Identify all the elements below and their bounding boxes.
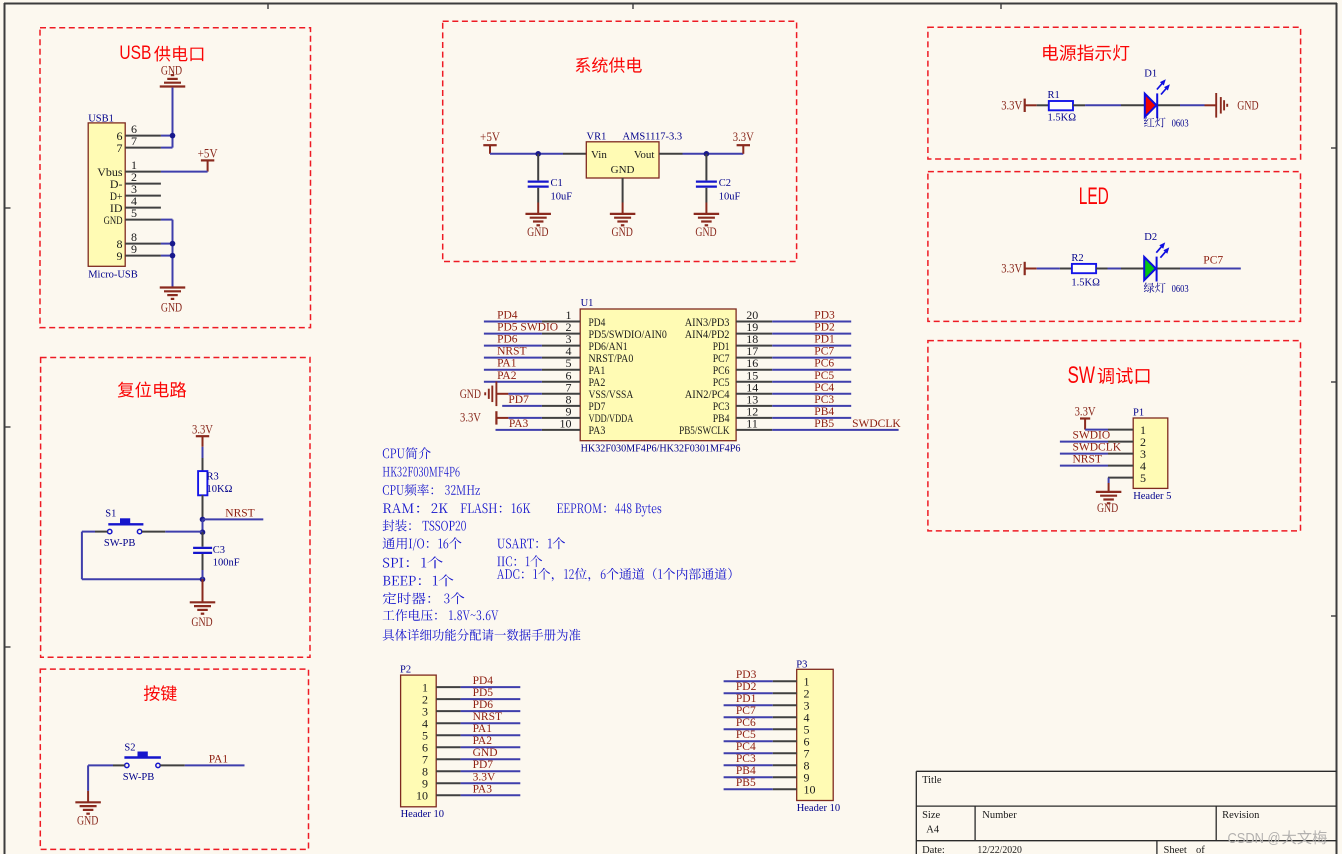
svg-text:SWDCLK: SWDCLK [852, 418, 901, 430]
svg-text:NRST: NRST [497, 346, 526, 358]
svg-text:PD2: PD2 [814, 322, 835, 334]
junction C1 [535, 151, 541, 157]
svg-text:7: 7 [117, 141, 123, 155]
switch S1 SW-PB [104, 508, 143, 549]
svg-text:Header 10: Header 10 [401, 809, 444, 820]
svg-text:Header 5: Header 5 [1133, 491, 1171, 502]
svg-text:S1: S1 [105, 508, 116, 519]
svg-text:PD1: PD1 [814, 334, 835, 346]
P3 pin numbers [804, 675, 816, 797]
wire S1 left loop [82, 532, 203, 580]
wire D1 to GND [1158, 104, 1216, 106]
svg-text:PC4: PC4 [814, 382, 834, 394]
svg-text:3.3V: 3.3V [473, 771, 496, 783]
header P1 Header 5 [1133, 407, 1171, 502]
svg-text:LED: LED [1079, 183, 1109, 210]
svg-text:GND: GND [1237, 98, 1258, 112]
ground GND top of USB [160, 64, 186, 87]
svg-text:PA2: PA2 [473, 735, 493, 747]
svg-text:PD5 SWDIO: PD5 SWDIO [497, 322, 558, 334]
svg-text:GND: GND [527, 225, 548, 239]
svg-text:VR1: VR1 [587, 131, 607, 142]
section title USB 供电口 [119, 42, 203, 64]
header P3 Header 10 [796, 659, 840, 814]
svg-text:Revision: Revision [1222, 810, 1260, 821]
ground GND under VR1 [610, 214, 636, 239]
P2 pin numbers [416, 680, 428, 802]
wire 3.3V to R3 [202, 447, 204, 458]
svg-text:PB5: PB5 [736, 777, 756, 789]
svg-text:PD4: PD4 [497, 310, 518, 322]
CPU description text [383, 447, 732, 641]
power port 3.3V debug [1075, 404, 1096, 429]
section title 系统供电 [576, 57, 642, 73]
power port 3.3V U1 VDD [460, 410, 508, 424]
svg-text:GND: GND [460, 387, 481, 401]
wire U1 pin2 [484, 333, 542, 335]
junction pin 8 [170, 241, 176, 247]
svg-text:SW-PB: SW-PB [123, 772, 155, 783]
value 红灯 0603 [1144, 117, 1189, 129]
svg-text:GND: GND [611, 164, 635, 176]
wire R2 to D2 [1108, 268, 1145, 270]
svg-text:Size: Size [922, 810, 940, 821]
U1 right pin names [679, 315, 730, 437]
wire P3 pin3 [724, 704, 773, 706]
wire U1 pin7 [508, 393, 542, 395]
wire P2 pin4 [461, 722, 521, 724]
svg-text:GND: GND [1097, 501, 1118, 515]
svg-text:+5V: +5V [198, 147, 218, 161]
svg-text:Vout: Vout [634, 149, 655, 161]
power port 3.3V indicator [1001, 99, 1036, 113]
wire P2 pin6 [461, 746, 521, 748]
wire P2 pin8 [461, 770, 521, 772]
wire GND to USB1 pins 6/7 [161, 88, 173, 148]
wire U1 pin17 [772, 357, 851, 359]
svg-text:HK32F030MF4P6/HK32F0301MF4P6: HK32F030MF4P6/HK32F0301MF4P6 [581, 443, 741, 454]
svg-text:3.3V: 3.3V [1001, 262, 1022, 276]
wire P2 pin3 [461, 710, 521, 712]
svg-text:SWDCLK: SWDCLK [1073, 442, 1122, 454]
wire P2 pin9 [461, 782, 521, 784]
svg-text:PD2: PD2 [736, 681, 757, 693]
svg-text:PD3: PD3 [814, 310, 835, 322]
svg-text:Header 10: Header 10 [797, 803, 840, 814]
junction pins 6/7 [170, 133, 176, 139]
svg-text:10uF: 10uF [719, 192, 741, 203]
wire U1 pin20 [772, 321, 851, 323]
junction C2 [704, 151, 710, 157]
wire Vbus to +5V [161, 171, 208, 173]
LED D1 red [1145, 79, 1170, 118]
svg-text:PD1: PD1 [736, 693, 757, 705]
svg-text:P1: P1 [1133, 407, 1144, 418]
svg-text:C1: C1 [551, 178, 563, 189]
wire U1 pin14 [772, 393, 851, 395]
section box USB power [40, 28, 311, 328]
capacitor C1 10uF [528, 154, 549, 214]
resistor R2 1.5K [1072, 264, 1108, 273]
P1 pin stubs [1108, 430, 1133, 478]
section box power indicator [928, 27, 1301, 159]
power port 3.3V system [733, 130, 754, 154]
P1 pin numbers [1140, 423, 1146, 485]
svg-text:3.3V: 3.3V [1075, 404, 1096, 418]
wire U1 pin3 [484, 345, 542, 347]
svg-text:D2: D2 [1144, 232, 1157, 243]
svg-text:R3: R3 [207, 471, 219, 482]
svg-text:5: 5 [131, 206, 137, 220]
svg-text:PC3: PC3 [736, 753, 756, 765]
U1 right pin stubs [736, 322, 772, 430]
power port +5V system [480, 130, 500, 154]
svg-text:PC5: PC5 [814, 370, 834, 382]
junction NRST [200, 517, 206, 523]
section box SW debug [928, 341, 1301, 531]
svg-text:0603: 0603 [1172, 283, 1189, 295]
wire P2 pin2 [461, 698, 521, 700]
wire D2 PC7 [1157, 268, 1240, 270]
svg-text:PA3: PA3 [473, 783, 493, 795]
svg-text:3.3V: 3.3V [1001, 99, 1022, 113]
watermark CSDN [1228, 830, 1327, 847]
svg-text:PB4: PB4 [814, 406, 834, 418]
wire NRST [203, 518, 264, 520]
power port 3.3V reset [192, 422, 213, 446]
svg-text:5: 5 [1140, 471, 1146, 485]
wire U1 pin12 [772, 417, 851, 419]
LED D2 green [1144, 242, 1169, 281]
section title 按键 [144, 685, 177, 701]
ground GND U1 VSS [460, 382, 509, 407]
wire U1 pin9 [508, 417, 542, 419]
svg-text:10KΩ: 10KΩ [207, 484, 233, 495]
wire pin5 GND down [161, 220, 173, 287]
wire 3.3V to P1 pin1 [1085, 429, 1108, 431]
svg-text:0603: 0603 [1172, 118, 1189, 130]
svg-text:R1: R1 [1048, 90, 1060, 101]
svg-text:100nF: 100nF [213, 558, 240, 569]
ground GND bottom of USB [160, 288, 186, 315]
USB1 pin numbers [131, 122, 137, 256]
svg-text:PC5: PC5 [736, 729, 756, 741]
svg-text:1.5KΩ: 1.5KΩ [1048, 112, 1077, 123]
svg-text:Vin: Vin [591, 149, 607, 161]
section box system power [443, 21, 797, 261]
svg-text:9: 9 [117, 249, 123, 263]
wire 3.3V to R2 [1037, 268, 1072, 270]
wire P3 pin5 [724, 728, 773, 730]
svg-text:A4: A4 [926, 824, 940, 835]
svg-text:+5V: +5V [480, 130, 500, 144]
svg-text:Number: Number [982, 810, 1017, 821]
svg-text:AMS1117-3.3: AMS1117-3.3 [623, 131, 683, 142]
ground GND debug [1096, 492, 1122, 515]
power port 3.3V LED [1001, 262, 1036, 276]
svg-text:C2: C2 [719, 178, 731, 189]
section title SW 调试口 [1068, 362, 1150, 389]
svg-text:Sheet: Sheet [1164, 845, 1187, 854]
svg-text:PD5: PD5 [473, 687, 494, 699]
section box key [40, 669, 308, 849]
svg-text:1.5KΩ: 1.5KΩ [1071, 278, 1100, 289]
svg-text:PA2: PA2 [497, 370, 517, 382]
svg-text:PA3: PA3 [589, 423, 606, 437]
svg-text:PC4: PC4 [736, 741, 756, 753]
USB1 pin stubs [125, 136, 161, 256]
wire NRST debug [1060, 465, 1108, 467]
U1 left pin names [589, 315, 667, 437]
section title 电源指示灯 [1043, 45, 1129, 61]
wire P2 pin5 [461, 734, 521, 736]
wire R3 to C3 [202, 519, 204, 532]
svg-text:10: 10 [804, 783, 816, 797]
svg-text:NRST: NRST [225, 507, 254, 519]
wire VR1 out to 3.3V [659, 153, 743, 155]
svg-text:GND: GND [473, 747, 498, 759]
svg-text:10: 10 [560, 416, 572, 430]
svg-text:U1: U1 [581, 298, 594, 309]
wire P3 pin2 [724, 692, 773, 694]
svg-text:of: of [1196, 845, 1205, 854]
wire +5V to VR1 [490, 153, 586, 155]
svg-text:PB5: PB5 [814, 418, 834, 430]
svg-text:3.3V: 3.3V [192, 422, 213, 436]
svg-text:PD3: PD3 [736, 669, 757, 681]
junction bottom [200, 577, 206, 583]
svg-text:CSDN @: CSDN @ [1228, 830, 1281, 847]
svg-text:12/22/2020: 12/22/2020 [977, 845, 1022, 854]
svg-text:PB4: PB4 [736, 765, 756, 777]
section box reset circuit [41, 358, 310, 658]
wire P2 pin7 [461, 758, 521, 760]
capacitor C3 100nF [193, 532, 212, 570]
U1 left pin numbers 1-10 [560, 308, 572, 430]
wire P2 pin1 [461, 686, 521, 688]
capacitor C2 10uF [696, 154, 717, 214]
wire U1 pin6 [484, 381, 542, 383]
svg-text:PC6: PC6 [736, 717, 756, 729]
junction pin 9 [170, 253, 176, 259]
wire U1 pin1 [484, 321, 542, 323]
wire P3 pin8 [724, 764, 773, 766]
svg-text:NRST: NRST [1073, 454, 1102, 466]
svg-text:Title: Title [922, 775, 942, 786]
wire U1 pin11 [772, 429, 898, 431]
wire U1 pin4 [484, 357, 542, 359]
switch S2 SW-PB [123, 742, 161, 783]
svg-text:SWDIO: SWDIO [1073, 430, 1111, 442]
section box LED [928, 172, 1301, 322]
svg-text:3.3V: 3.3V [733, 130, 754, 144]
svg-text:PD7: PD7 [508, 394, 529, 406]
connector USB1 Micro-USB [88, 113, 138, 280]
svg-text:Micro-USB: Micro-USB [88, 269, 138, 280]
MCU U1 HK32F030MF4P6 [580, 298, 740, 455]
wire to ground [202, 570, 204, 602]
wire U1 pin15 [772, 381, 851, 383]
svg-text:SW-PB: SW-PB [104, 538, 136, 549]
wire SWDIO [1060, 441, 1108, 443]
USB1 pin names [97, 129, 123, 263]
wire P3 pin4 [724, 716, 773, 718]
svg-text:GND: GND [161, 301, 182, 315]
svg-text:SW: SW [1068, 362, 1096, 389]
ground GND key [75, 802, 101, 827]
wire U1 pin10 PA3 [496, 429, 542, 431]
svg-text:10uF: 10uF [551, 192, 573, 203]
wire P2 pin10 [461, 794, 521, 796]
resistor R3 10K [198, 458, 207, 519]
svg-text:PC6: PC6 [814, 358, 834, 370]
svg-text:GND: GND [695, 225, 716, 239]
svg-text:GND: GND [612, 225, 633, 239]
power port +5V [198, 147, 218, 172]
section title 复位电路 [118, 382, 187, 398]
svg-text:PB5/SWCLK: PB5/SWCLK [679, 423, 730, 437]
ground GND reset [190, 602, 216, 629]
svg-text:7: 7 [131, 134, 137, 148]
ground GND under C1 [525, 214, 551, 239]
svg-text:PA1: PA1 [209, 753, 229, 765]
wire U1 pin13 [772, 405, 851, 407]
ground GND under C2 [694, 214, 720, 239]
svg-text:C3: C3 [213, 545, 225, 556]
wire U1 pin5 [484, 369, 542, 371]
wire P1 pin5 to GND [1108, 478, 1110, 492]
wire P3 pin1 [724, 680, 773, 682]
svg-text:11: 11 [746, 416, 758, 430]
wire U1 pin16 [772, 369, 851, 371]
svg-text:10: 10 [416, 789, 428, 803]
U1 right pin numbers 20-11 [746, 308, 758, 430]
svg-text:GND: GND [77, 813, 98, 827]
wire P3 pin6 [724, 740, 773, 742]
svg-text:3.3V: 3.3V [460, 410, 481, 424]
svg-text:PA3: PA3 [509, 418, 529, 430]
svg-text:Date:: Date: [922, 845, 945, 854]
P3 pin stubs [773, 681, 797, 789]
svg-text:PD4: PD4 [473, 675, 494, 687]
svg-text:PC7: PC7 [736, 705, 756, 717]
wire U1 pin8 PD7 [502, 405, 542, 407]
svg-text:PD6: PD6 [497, 334, 518, 346]
U1 left pin stubs [542, 322, 580, 430]
svg-text:9: 9 [131, 242, 137, 256]
wire VR1 GND pin [622, 178, 624, 213]
svg-text:PD6: PD6 [473, 699, 494, 711]
svg-text:PC3: PC3 [814, 394, 834, 406]
wire S2 right PA1 [160, 764, 244, 766]
value 绿灯 0603 [1144, 283, 1189, 295]
regulator VR1 AMS1117-3.3 [586, 131, 682, 178]
wire S1 right to junction [142, 531, 203, 533]
header P2 Header 10 [400, 664, 444, 820]
wire U1 pin18 [772, 345, 851, 347]
wire P3 pin7 [724, 752, 773, 754]
P2 pin stubs [436, 687, 460, 795]
ground GND indicator [1216, 93, 1258, 118]
svg-text:R2: R2 [1071, 253, 1083, 264]
svg-text:NRST: NRST [473, 711, 502, 723]
wire P3 pin9 [724, 776, 773, 778]
svg-text:D1: D1 [1144, 69, 1157, 80]
wire SWDCLK [1060, 453, 1108, 455]
svg-text:PA1: PA1 [473, 723, 493, 735]
wire P3 pin10 [724, 788, 773, 790]
wire R1 to D1 [1085, 104, 1145, 106]
wire U1 pin19 [772, 333, 851, 335]
svg-text:S2: S2 [124, 742, 135, 753]
junction switch tap [200, 529, 206, 535]
svg-text:P2: P2 [400, 664, 411, 675]
svg-text:PA1: PA1 [497, 358, 517, 370]
svg-text:GND: GND [104, 213, 123, 227]
svg-text:PD7: PD7 [473, 759, 494, 771]
svg-text:GND: GND [191, 615, 212, 629]
svg-text:USB: USB [119, 42, 151, 64]
wire S2 left to ground [88, 765, 125, 802]
title block [916, 771, 1336, 854]
svg-text:PC7: PC7 [1203, 255, 1223, 267]
svg-text:PC7: PC7 [814, 346, 834, 358]
resistor R1 1.5K [1037, 101, 1085, 110]
title block labels [922, 775, 1260, 854]
